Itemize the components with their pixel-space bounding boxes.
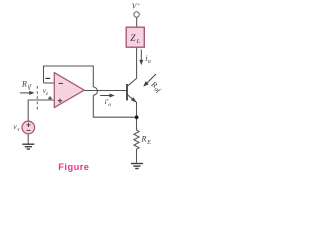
svg-text:E: E bbox=[146, 140, 151, 146]
svg-text:L: L bbox=[136, 39, 141, 45]
svg-text:o: o bbox=[148, 59, 151, 65]
svg-text:Z: Z bbox=[130, 34, 136, 44]
svg-text:if: if bbox=[28, 84, 33, 91]
svg-text:R: R bbox=[141, 135, 147, 144]
svg-text:ε: ε bbox=[46, 91, 49, 97]
svg-text:+: + bbox=[137, 2, 141, 8]
svg-text:o: o bbox=[108, 102, 111, 108]
svg-text:s: s bbox=[17, 126, 19, 132]
svg-text:Figure: Figure bbox=[58, 162, 89, 172]
svg-text:R: R bbox=[21, 79, 27, 88]
